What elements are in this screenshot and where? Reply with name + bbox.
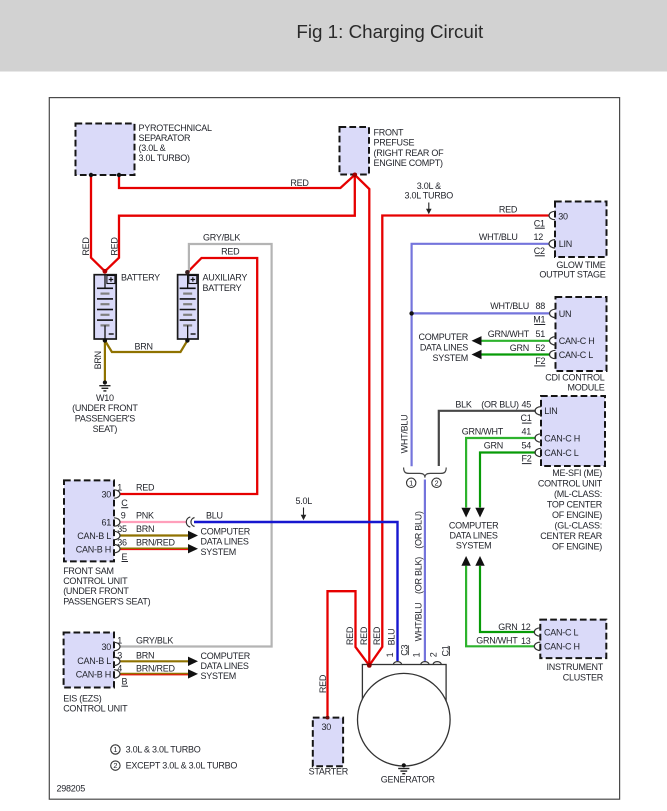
svg-text:PYROTECHNICAL: PYROTECHNICAL [139,123,213,133]
svg-text:DATA LINES: DATA LINES [201,661,249,671]
svg-text:(ML-CLASS:: (ML-CLASS: [554,489,602,499]
svg-text:54: 54 [521,440,531,450]
svg-text:(GL-CLASS:: (GL-CLASS: [554,521,602,531]
svg-text:WHT/BLU: WHT/BLU [479,232,518,242]
svg-text:WHT/BLU: WHT/BLU [414,603,424,642]
svg-text:CAN-C H: CAN-C H [544,433,580,443]
svg-text:GRN/WHT: GRN/WHT [476,636,518,646]
svg-text:35: 35 [117,524,127,534]
svg-text:BLU: BLU [387,629,397,646]
svg-text:CONTROL UNIT: CONTROL UNIT [63,576,128,586]
svg-text:(UNDER FRONT: (UNDER FRONT [72,403,138,413]
svg-text:BRN/RED: BRN/RED [136,538,176,548]
svg-text:COMPUTER: COMPUTER [201,527,251,537]
svg-text:UN: UN [559,309,572,319]
svg-text:ENGINE COMPT): ENGINE COMPT) [374,158,444,168]
svg-text:F2: F2 [521,454,531,464]
svg-text:GRN/WHT: GRN/WHT [462,427,504,437]
svg-text:12: 12 [521,622,531,632]
svg-text:RED: RED [318,674,328,693]
svg-text:30: 30 [101,489,111,499]
svg-text:RED: RED [136,483,155,493]
svg-text:RED: RED [499,205,518,215]
svg-text:BRN/RED: BRN/RED [136,664,176,674]
svg-text:5.0L: 5.0L [296,496,313,506]
svg-text:BLU: BLU [206,511,223,521]
svg-text:13: 13 [521,636,531,646]
svg-text:GRY/BLK: GRY/BLK [136,636,173,646]
svg-text:3: 3 [117,651,122,661]
svg-text:RED: RED [81,237,91,256]
svg-text:(OR BLK): (OR BLK) [414,557,424,594]
svg-text:RED: RED [372,626,382,645]
svg-text:51: 51 [535,329,545,339]
svg-text:GRY/BLK: GRY/BLK [203,232,240,242]
svg-text:1: 1 [117,636,122,646]
svg-text:GRN: GRN [484,440,503,450]
svg-text:GRN: GRN [498,622,517,632]
svg-text:PREFUSE: PREFUSE [374,138,415,148]
svg-text:CAN-C L: CAN-C L [559,350,593,360]
svg-text:OF ENGINE): OF ENGINE) [552,510,602,520]
svg-text:BATTERY: BATTERY [121,273,160,283]
svg-text:CONTROL UNIT: CONTROL UNIT [63,704,128,714]
svg-text:(OR BLU): (OR BLU) [481,400,519,410]
svg-text:AUXILIARY: AUXILIARY [203,273,248,283]
svg-text:DATA LINES: DATA LINES [201,537,249,547]
svg-text:FRONT SAM: FRONT SAM [63,566,114,576]
svg-text:SYSTEM: SYSTEM [432,353,468,363]
svg-text:STARTER: STARTER [309,766,349,776]
svg-text:52: 52 [535,343,545,353]
svg-text:SYSTEM: SYSTEM [201,671,237,681]
svg-text:DATA LINES: DATA LINES [420,342,468,352]
svg-text:2: 2 [434,478,438,487]
svg-text:3.0L &: 3.0L & [417,181,441,191]
svg-text:DATA LINES: DATA LINES [450,531,498,541]
svg-text:PASSENGER'S: PASSENGER'S [75,414,136,424]
svg-text:EXCEPT 3.0L & 3.0L TURBO: EXCEPT 3.0L & 3.0L TURBO [126,761,238,771]
svg-text:30: 30 [322,722,332,732]
svg-text:1: 1 [409,478,413,487]
svg-text:1: 1 [412,652,422,657]
svg-text:1: 1 [385,652,395,657]
svg-text:2: 2 [113,761,117,770]
svg-text:PASSENGER'S SEAT): PASSENGER'S SEAT) [63,596,150,606]
svg-text:3.0L TURBO): 3.0L TURBO) [139,153,191,163]
svg-text:CAN-C L: CAN-C L [544,448,578,458]
svg-text:E: E [122,552,128,562]
svg-text:COMPUTER: COMPUTER [419,332,469,342]
svg-text:RED: RED [290,178,309,188]
svg-text:MODULE: MODULE [567,383,604,393]
svg-text:9: 9 [121,511,126,521]
svg-text:2: 2 [428,652,438,657]
svg-text:ME-SFI (ME): ME-SFI (ME) [552,468,602,478]
svg-text:CENTER REAR: CENTER REAR [540,531,603,541]
svg-text:COMPUTER: COMPUTER [449,520,499,530]
svg-text:88: 88 [535,301,545,311]
svg-text:SYSTEM: SYSTEM [456,541,492,551]
svg-text:3.0L & 3.0L TURBO: 3.0L & 3.0L TURBO [126,744,201,754]
svg-text:(UNDER FRONT: (UNDER FRONT [63,586,129,596]
svg-text:41: 41 [521,427,531,437]
svg-text:OF ENGINE): OF ENGINE) [552,542,602,552]
svg-text:INSTRUMENT: INSTRUMENT [547,662,604,672]
svg-text:1: 1 [113,745,117,754]
svg-text:12: 12 [533,232,543,242]
svg-text:BRN: BRN [136,524,154,534]
svg-text:M1: M1 [533,315,545,325]
svg-text:298205: 298205 [57,783,86,793]
svg-text:30: 30 [558,211,568,221]
svg-text:GLOW TIME: GLOW TIME [556,260,605,270]
svg-text:RED: RED [221,246,240,256]
svg-text:(RIGHT REAR OF: (RIGHT REAR OF [374,148,445,158]
svg-text:WHT/BLU: WHT/BLU [400,415,410,454]
svg-text:C1: C1 [520,413,531,423]
svg-text:F2: F2 [535,356,545,366]
svg-text:(3.0L &: (3.0L & [139,143,166,153]
svg-text:CONTROL UNIT: CONTROL UNIT [538,479,603,489]
svg-text:CDI CONTROL: CDI CONTROL [545,372,604,382]
svg-text:SYSTEM: SYSTEM [201,547,237,557]
svg-text:LIN: LIN [544,406,557,416]
svg-text:CAN-C L: CAN-C L [544,627,578,637]
svg-text:C2: C2 [534,246,545,256]
svg-text:BATTERY: BATTERY [203,283,242,293]
svg-text:1: 1 [117,483,122,493]
svg-text:COMPUTER: COMPUTER [201,651,251,661]
svg-text:RED: RED [109,237,119,256]
svg-text:3.0L TURBO: 3.0L TURBO [405,191,454,201]
svg-text:CAN-B L: CAN-B L [77,656,111,666]
svg-text:B: B [122,677,128,687]
svg-text:CAN-B H: CAN-B H [76,669,111,679]
svg-text:45: 45 [521,400,531,410]
svg-text:CAN-C H: CAN-C H [559,336,595,346]
svg-text:BRN: BRN [136,651,154,661]
svg-text:Fig 1: Charging Circuit: Fig 1: Charging Circuit [296,21,484,42]
svg-text:RED: RED [345,626,355,645]
svg-text:CAN-B H: CAN-B H [76,545,111,555]
svg-text:CAN-B L: CAN-B L [77,531,111,541]
svg-text:RED: RED [359,626,369,645]
svg-text:GENERATOR: GENERATOR [381,774,436,784]
svg-text:SEAT): SEAT) [93,424,118,434]
svg-text:TOP CENTER: TOP CENTER [547,500,603,510]
svg-text:GRN: GRN [510,343,529,353]
svg-text:C: C [121,498,128,508]
svg-text:SEPARATOR: SEPARATOR [139,133,192,143]
svg-text:(OR BLU): (OR BLU) [414,511,424,549]
svg-text:C1: C1 [534,219,545,229]
svg-text:36: 36 [117,538,127,548]
svg-text:61: 61 [101,517,111,527]
svg-text:OUTPUT STAGE: OUTPUT STAGE [539,270,605,280]
svg-text:BRN: BRN [93,351,103,369]
svg-text:EIS (EZS): EIS (EZS) [63,693,102,703]
svg-text:PNK: PNK [136,511,154,521]
svg-text:FRONT: FRONT [374,128,404,138]
svg-text:LIN: LIN [559,239,572,249]
svg-text:BLK: BLK [455,400,472,410]
svg-text:30: 30 [101,642,111,652]
svg-text:WHT/BLU: WHT/BLU [490,301,529,311]
svg-text:GRN/WHT: GRN/WHT [488,329,530,339]
svg-text:CLUSTER: CLUSTER [563,672,604,682]
svg-text:BRN: BRN [134,341,152,351]
svg-text:4: 4 [117,664,122,674]
svg-text:CAN-C H: CAN-C H [544,642,580,652]
svg-text:W10: W10 [96,393,114,403]
